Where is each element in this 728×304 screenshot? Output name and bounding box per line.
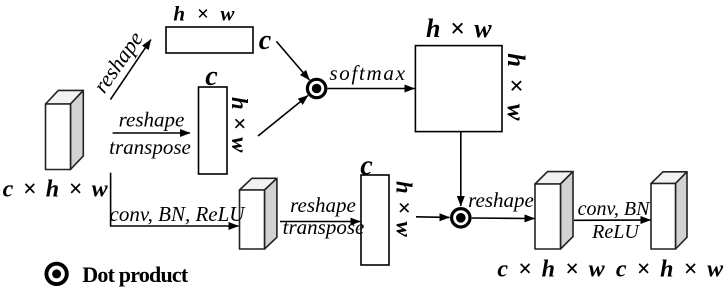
- svg-text:c × h × w: c × h × w: [616, 257, 725, 283]
- svg-text:reshape: reshape: [290, 193, 356, 217]
- svg-text:ReLU: ReLU: [591, 221, 640, 243]
- svg-text:c × h × w: c × h × w: [3, 177, 110, 203]
- svg-text:h × w: h × w: [227, 97, 252, 153]
- svg-text:h × w: h × w: [426, 14, 493, 43]
- svg-text:Dot product: Dot product: [82, 262, 189, 287]
- svg-text:transpose: transpose: [283, 215, 365, 239]
- svg-text:c: c: [360, 151, 373, 182]
- svg-text:conv, BN: conv, BN: [578, 198, 651, 220]
- svg-text:c: c: [259, 25, 272, 56]
- svg-text:h × w: h × w: [173, 2, 237, 26]
- svg-text:h × w: h × w: [502, 53, 529, 123]
- svg-text:transpose: transpose: [109, 135, 191, 159]
- svg-text:c: c: [205, 61, 218, 92]
- svg-text:reshape: reshape: [119, 108, 185, 132]
- svg-text:reshape: reshape: [468, 188, 534, 212]
- svg-text:h × w: h × w: [391, 181, 416, 238]
- svg-text:reshape: reshape: [88, 26, 148, 97]
- svg-text:c × h × w: c × h × w: [497, 257, 606, 283]
- svg-text:conv, BN, ReLU: conv, BN, ReLU: [110, 202, 247, 226]
- svg-text:softmax: softmax: [329, 61, 406, 85]
